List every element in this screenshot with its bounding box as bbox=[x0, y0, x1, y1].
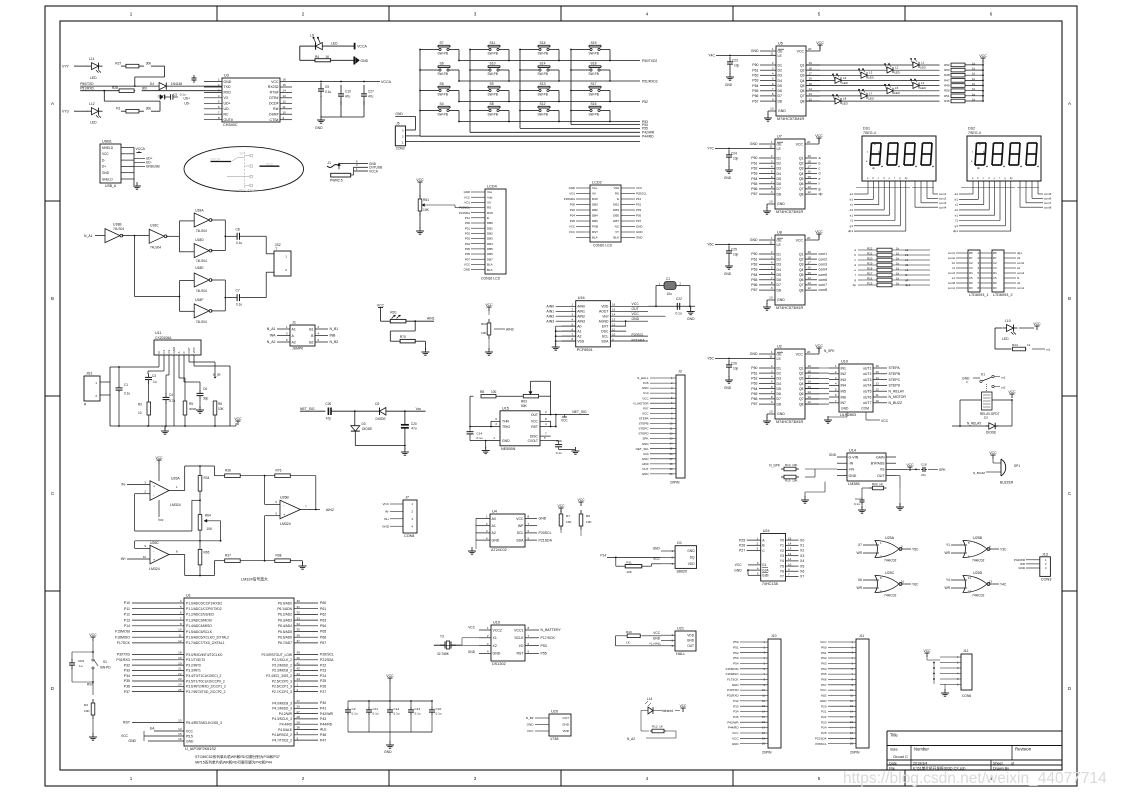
svg-text:32.768K: 32.768K bbox=[437, 652, 450, 656]
svg-text:VCC: VCC bbox=[796, 238, 804, 242]
svg-text:DTR#: DTR# bbox=[269, 96, 278, 100]
svg-text:74LS04: 74LS04 bbox=[196, 229, 207, 233]
svg-text:S14: S14 bbox=[540, 61, 546, 65]
svg-text:13: 13 bbox=[283, 94, 287, 98]
svg-text:DISC: DISC bbox=[530, 434, 539, 438]
svg-text:10: 10 bbox=[769, 410, 773, 414]
svg-text:P67: P67 bbox=[751, 288, 757, 292]
svg-text:LED: LED bbox=[894, 71, 901, 75]
svg-text:V0: V0 bbox=[487, 201, 491, 205]
svg-text:d1: d1 bbox=[905, 263, 909, 267]
svg-text:R3: R3 bbox=[84, 703, 88, 707]
svg-text:C6: C6 bbox=[203, 387, 207, 391]
svg-text:P34: P34 bbox=[733, 710, 739, 714]
svg-text:SW-PB: SW-PB bbox=[488, 93, 498, 97]
svg-text:Q4: Q4 bbox=[799, 172, 804, 176]
svg-text:P2.4/ECI_3/SS_2: P2.4/ECI_3/SS_2 bbox=[266, 674, 292, 678]
svg-text:S19: S19 bbox=[591, 41, 597, 45]
svg-text:10: 10 bbox=[670, 421, 673, 425]
svg-text:P12: P12 bbox=[124, 613, 130, 617]
svg-text:P4.6/RXD2_2: P4.6/RXD2_2 bbox=[272, 733, 292, 737]
svg-text:R37: R37 bbox=[225, 554, 231, 558]
svg-text:D3: D3 bbox=[777, 263, 782, 267]
svg-text:19: 19 bbox=[808, 364, 812, 368]
svg-text:GND: GND bbox=[642, 442, 650, 446]
svg-text:VCC: VCC bbox=[234, 417, 242, 421]
svg-text:P20SDA: P20SDA bbox=[564, 197, 575, 201]
svg-text:R14 10K: R14 10K bbox=[785, 463, 798, 467]
svg-text:SW-PB: SW-PB bbox=[488, 52, 498, 56]
svg-text:S15: S15 bbox=[540, 41, 546, 45]
svg-text:D3: D3 bbox=[777, 167, 782, 171]
svg-text:Q5: Q5 bbox=[799, 387, 804, 391]
svg-text:39: 39 bbox=[297, 651, 301, 655]
svg-text:33: 33 bbox=[297, 616, 301, 620]
svg-text:GND: GND bbox=[724, 386, 732, 390]
svg-text:300R: 300R bbox=[189, 407, 197, 411]
svg-text:R12 1K: R12 1K bbox=[652, 725, 663, 729]
svg-text:Title: Title bbox=[890, 733, 898, 738]
svg-text:P50/TXD2: P50/TXD2 bbox=[642, 59, 657, 63]
svg-text:Vcc: Vcc bbox=[158, 518, 164, 522]
svg-text:VCC: VCC bbox=[1008, 390, 1016, 394]
svg-text:f1: f1 bbox=[905, 273, 908, 277]
svg-text:0.1u: 0.1u bbox=[556, 451, 562, 455]
svg-text:20: 20 bbox=[807, 236, 811, 240]
svg-text:K1: K1 bbox=[981, 373, 985, 377]
svg-text:D1: D1 bbox=[677, 541, 682, 545]
svg-text:GND: GND bbox=[777, 412, 785, 416]
svg-text:P2.0/RSTOUT_LOW: P2.0/RSTOUT_LOW bbox=[261, 653, 292, 657]
svg-text:1u: 1u bbox=[153, 380, 157, 384]
svg-text:P24: P24 bbox=[821, 726, 827, 730]
svg-text:P62: P62 bbox=[751, 263, 757, 267]
svg-text:P12: P12 bbox=[636, 197, 642, 201]
svg-text:D2: D2 bbox=[777, 162, 782, 166]
svg-text:X6: X6 bbox=[858, 578, 862, 582]
svg-text:ALE: ALE bbox=[320, 728, 327, 732]
svg-text:U25B: U25B bbox=[973, 536, 983, 540]
svg-text:dp1: dp1 bbox=[848, 229, 853, 233]
svg-text:U18F: U18F bbox=[195, 298, 203, 302]
svg-text:P1.0/ADC0/CCP1/RXD2: P1.0/ADC0/CCP1/RXD2 bbox=[186, 601, 222, 605]
svg-text:GND: GND bbox=[724, 272, 732, 276]
svg-text:P65: P65 bbox=[821, 672, 827, 676]
svg-text:J13: J13 bbox=[1042, 552, 1048, 556]
svg-text:N_BUZZ: N_BUZZ bbox=[973, 471, 985, 475]
svg-text:LED: LED bbox=[868, 96, 875, 100]
svg-text:X2: X2 bbox=[800, 549, 804, 553]
svg-text:R15 10K: R15 10K bbox=[785, 479, 798, 483]
svg-text:P20: P20 bbox=[821, 704, 827, 708]
svg-text:OE: OE bbox=[778, 49, 784, 53]
svg-text:com2: com2 bbox=[939, 197, 947, 201]
svg-text:47u: 47u bbox=[411, 427, 417, 431]
svg-text:P3.3/INT1: P3.3/INT1 bbox=[186, 669, 201, 673]
svg-text:N_SPK: N_SPK bbox=[769, 464, 781, 468]
svg-text:C26: C26 bbox=[731, 362, 737, 366]
svg-text:14: 14 bbox=[762, 710, 765, 714]
svg-text:OE: OE bbox=[777, 352, 783, 356]
svg-text:P2.3/MOSI_2: P2.3/MOSI_2 bbox=[272, 669, 292, 673]
svg-text:d: d bbox=[819, 172, 821, 176]
svg-text:X5: X5 bbox=[800, 564, 804, 568]
svg-text:CON16 LCD: CON16 LCD bbox=[481, 277, 501, 281]
svg-text:43: 43 bbox=[297, 672, 301, 676]
svg-text:D3: D3 bbox=[362, 422, 366, 426]
svg-text:BLK: BLK bbox=[487, 268, 493, 272]
svg-text:U8: U8 bbox=[777, 231, 782, 235]
svg-text:P1.4/ADC4/MISO: P1.4/ADC4/MISO bbox=[186, 624, 212, 628]
svg-text:DIODE: DIODE bbox=[376, 417, 386, 421]
svg-text:D4: D4 bbox=[777, 382, 782, 386]
svg-text:GND: GND bbox=[636, 236, 642, 240]
svg-text:R21: R21 bbox=[867, 252, 873, 256]
svg-text:P4.7/TXD2_2: P4.7/TXD2_2 bbox=[272, 738, 292, 742]
svg-text:L8: L8 bbox=[843, 97, 847, 101]
svg-text:P4.5/ALE: P4.5/ALE bbox=[278, 728, 293, 732]
svg-text:D6: D6 bbox=[777, 278, 782, 282]
svg-text:OUT: OUT bbox=[187, 347, 191, 354]
svg-text:J1: J1 bbox=[328, 161, 332, 165]
svg-text:GND: GND bbox=[841, 407, 849, 411]
svg-text:10K: 10K bbox=[626, 570, 632, 574]
svg-text:P54: P54 bbox=[733, 662, 739, 666]
svg-text:DB1: DB1 bbox=[613, 203, 619, 207]
svg-text:C5: C5 bbox=[993, 276, 997, 280]
svg-text:com1: com1 bbox=[939, 192, 947, 196]
svg-text:dp1: dp1 bbox=[953, 229, 958, 233]
svg-text:15: 15 bbox=[178, 732, 182, 736]
svg-text:VCC: VCC bbox=[815, 230, 823, 234]
svg-text:SW-PB: SW-PB bbox=[589, 93, 599, 97]
svg-text:R/W: R/W bbox=[592, 197, 598, 201]
svg-text:IN5: IN5 bbox=[841, 390, 847, 394]
svg-text:BLA: BLA bbox=[592, 236, 598, 240]
svg-text:P5.5: P5.5 bbox=[186, 734, 193, 738]
svg-text:STEPB: STEPB bbox=[889, 372, 901, 376]
svg-text:11: 11 bbox=[770, 52, 773, 56]
svg-text:VCC: VCC bbox=[377, 303, 385, 307]
svg-text:VCC: VCC bbox=[816, 41, 824, 45]
svg-text:U3: U3 bbox=[224, 74, 229, 78]
svg-text:com8: com8 bbox=[948, 281, 955, 285]
svg-text:V3: V3 bbox=[224, 96, 228, 100]
svg-text:C2: C2 bbox=[352, 707, 356, 711]
svg-text:GND: GND bbox=[687, 317, 695, 321]
svg-text:D1: D1 bbox=[777, 156, 782, 160]
svg-text:S7: S7 bbox=[440, 41, 444, 45]
svg-text:CON3: CON3 bbox=[1041, 577, 1052, 581]
svg-text:STEPA: STEPA bbox=[889, 366, 901, 370]
svg-text:GND: GND bbox=[1018, 566, 1026, 570]
svg-text:14: 14 bbox=[876, 376, 880, 380]
svg-text:10p: 10p bbox=[734, 64, 740, 68]
svg-text:Q8: Q8 bbox=[799, 192, 804, 196]
svg-text:P06: P06 bbox=[465, 252, 471, 256]
svg-text:R4: R4 bbox=[315, 55, 319, 59]
svg-text:SCLK: SCLK bbox=[514, 636, 524, 640]
svg-text:J1: J1 bbox=[292, 321, 296, 325]
svg-text:P62: P62 bbox=[751, 377, 757, 381]
svg-text:X6: X6 bbox=[800, 569, 804, 573]
svg-text:30k: 30k bbox=[146, 61, 152, 65]
svg-text:F15MOSI: F15MOSI bbox=[115, 630, 130, 634]
svg-text:P67: P67 bbox=[752, 99, 758, 103]
svg-text:Vref: Vref bbox=[602, 315, 608, 319]
svg-text:VCC: VCC bbox=[578, 498, 586, 502]
svg-text:GND: GND bbox=[725, 83, 733, 87]
svg-text:ALE: ALE bbox=[821, 694, 827, 698]
svg-text:Q5: Q5 bbox=[799, 177, 804, 181]
svg-text:R7: R7 bbox=[566, 514, 570, 518]
svg-text:P51/RXD2: P51/RXD2 bbox=[642, 79, 658, 83]
svg-text:U24: U24 bbox=[763, 529, 770, 533]
svg-text:IN-: IN- bbox=[121, 483, 126, 487]
svg-text:P63: P63 bbox=[751, 172, 757, 176]
svg-text:P43: P43 bbox=[320, 717, 326, 721]
svg-text:0.1u: 0.1u bbox=[854, 502, 860, 506]
svg-text:14: 14 bbox=[670, 442, 673, 446]
svg-text:R24: R24 bbox=[1012, 343, 1018, 347]
svg-text:PWR2.5: PWR2.5 bbox=[330, 179, 343, 183]
svg-text:P35: P35 bbox=[733, 715, 739, 719]
svg-text:D5: D5 bbox=[777, 177, 782, 181]
svg-text:L12: L12 bbox=[89, 102, 95, 106]
svg-text:P31RXD: P31RXD bbox=[727, 694, 740, 698]
svg-text:P6.7/AD7: P6.7/AD7 bbox=[278, 641, 292, 645]
svg-text:VCC2: VCC2 bbox=[493, 628, 502, 632]
svg-text:15: 15 bbox=[808, 175, 812, 179]
svg-text:R38: R38 bbox=[276, 554, 282, 558]
svg-text:AIN2: AIN2 bbox=[546, 314, 554, 318]
svg-text:D8: D8 bbox=[777, 402, 782, 406]
svg-text:P00: P00 bbox=[570, 203, 576, 207]
svg-text:GND: GND bbox=[750, 238, 758, 242]
svg-text:N_A2: N_A2 bbox=[267, 340, 276, 344]
svg-text:OUT: OUT bbox=[531, 413, 538, 417]
svg-text:10: 10 bbox=[788, 562, 792, 566]
svg-text:U11: U11 bbox=[155, 331, 161, 335]
svg-text:X1: X1 bbox=[800, 544, 804, 548]
svg-text:P64: P64 bbox=[751, 273, 757, 277]
svg-text:17: 17 bbox=[670, 457, 673, 461]
svg-text:LE: LE bbox=[778, 54, 783, 58]
svg-text:TXD: TXD bbox=[224, 85, 231, 89]
svg-text:VCC: VCC bbox=[732, 736, 739, 740]
svg-text:C16: C16 bbox=[556, 439, 562, 443]
svg-text:18: 18 bbox=[809, 66, 813, 70]
svg-text:DB3: DB3 bbox=[613, 208, 619, 212]
svg-text:16: 16 bbox=[670, 452, 673, 456]
svg-text:P23: P23 bbox=[821, 720, 827, 724]
svg-text:A2: A2 bbox=[292, 340, 296, 344]
svg-text:P6.3/AD3: P6.3/AD3 bbox=[278, 618, 292, 622]
svg-text:com4: com4 bbox=[948, 271, 955, 275]
svg-text:R34: R34 bbox=[204, 476, 210, 480]
svg-text:CON20 LCD: CON20 LCD bbox=[593, 244, 613, 248]
svg-text:19: 19 bbox=[670, 467, 673, 471]
svg-text:A: A bbox=[177, 351, 181, 353]
svg-text:18: 18 bbox=[762, 731, 765, 735]
svg-text:MHELD: MHELD bbox=[102, 146, 114, 150]
svg-text:X1: X1 bbox=[493, 636, 497, 640]
svg-text:VO1: VO1 bbox=[464, 200, 470, 204]
svg-text:13: 13 bbox=[178, 719, 182, 723]
svg-text:DS1302: DS1302 bbox=[492, 662, 506, 666]
svg-text:R11: R11 bbox=[626, 560, 632, 564]
svg-text:OUT: OUT bbox=[632, 307, 639, 311]
svg-text:VCC: VCC bbox=[815, 134, 823, 138]
svg-text:LM324: LM324 bbox=[170, 503, 181, 507]
svg-text:11: 11 bbox=[968, 576, 971, 580]
svg-text:m1: m1 bbox=[1001, 376, 1006, 380]
svg-text:e1: e1 bbox=[905, 268, 909, 272]
svg-text:dp: dp bbox=[819, 192, 823, 196]
svg-text:com8: com8 bbox=[819, 288, 828, 292]
svg-text:D6: D6 bbox=[778, 89, 783, 93]
svg-text:LED: LED bbox=[90, 121, 97, 125]
svg-text:d1: d1 bbox=[1017, 281, 1021, 285]
svg-text:D2: D2 bbox=[777, 371, 782, 375]
svg-text:INA: INA bbox=[270, 334, 277, 338]
svg-text:P01: P01 bbox=[636, 203, 642, 207]
svg-text:L2: L2 bbox=[895, 66, 899, 70]
svg-text:AIN0: AIN0 bbox=[577, 305, 585, 309]
svg-text:BYPASS: BYPASS bbox=[871, 462, 885, 466]
svg-text:20: 20 bbox=[807, 140, 811, 144]
svg-text:GND: GND bbox=[172, 346, 176, 354]
svg-text:SW-PB: SW-PB bbox=[438, 72, 448, 76]
svg-text:U26B: U26B bbox=[280, 496, 289, 500]
svg-text:R63: R63 bbox=[521, 400, 527, 404]
svg-text:D6: D6 bbox=[777, 182, 782, 186]
svg-text:AIN0: AIN0 bbox=[546, 305, 554, 309]
svg-text:10u: 10u bbox=[667, 292, 673, 296]
svg-text:NC: NC bbox=[224, 113, 230, 117]
svg-text:11: 11 bbox=[788, 557, 791, 561]
svg-text:JUMP6: JUMP6 bbox=[292, 347, 303, 351]
svg-text:RS: RS bbox=[615, 192, 619, 196]
svg-text:R48: R48 bbox=[944, 73, 950, 77]
svg-text:47u: 47u bbox=[345, 95, 351, 99]
svg-text:14: 14 bbox=[808, 180, 812, 184]
svg-text:P63: P63 bbox=[821, 662, 827, 666]
svg-text:P21SDA: P21SDA bbox=[459, 211, 470, 215]
svg-text:D+: D+ bbox=[102, 165, 106, 169]
svg-text:SCL: SCL bbox=[517, 531, 524, 535]
svg-text:10: 10 bbox=[612, 332, 616, 336]
svg-text:RX232: RX232 bbox=[268, 85, 279, 89]
svg-text:R27: R27 bbox=[115, 61, 121, 65]
svg-text:Vss: Vss bbox=[592, 186, 598, 190]
svg-text:P52: P52 bbox=[642, 100, 648, 104]
svg-text:P1.7/ADC7/TXD_2/XTAL1: P1.7/ADC7/TXD_2/XTAL1 bbox=[186, 641, 225, 645]
svg-text:D4: D4 bbox=[150, 82, 154, 86]
svg-text:P01: P01 bbox=[465, 226, 471, 230]
svg-text:VCC: VCC bbox=[155, 456, 163, 460]
svg-text:com2: com2 bbox=[819, 257, 828, 261]
svg-text:P23: P23 bbox=[320, 669, 326, 673]
svg-text:VCC: VCC bbox=[815, 344, 823, 348]
svg-text:SW-PD: SW-PD bbox=[100, 666, 111, 670]
svg-text:GND: GND bbox=[734, 568, 742, 572]
svg-text:X3: X3 bbox=[800, 554, 804, 558]
svg-text:12: 12 bbox=[808, 190, 812, 194]
svg-text:oUT3: oUT3 bbox=[863, 378, 872, 382]
svg-text:C3: C3 bbox=[969, 266, 973, 270]
svg-text:12: 12 bbox=[808, 286, 812, 290]
svg-text:13: 13 bbox=[809, 92, 813, 96]
svg-text:U18E: U18E bbox=[195, 266, 204, 270]
svg-text:P14: P14 bbox=[124, 624, 130, 628]
svg-text:P63: P63 bbox=[751, 382, 757, 386]
svg-text:P04: P04 bbox=[465, 242, 471, 246]
svg-text:P26: P26 bbox=[739, 544, 745, 548]
svg-text:74LS04: 74LS04 bbox=[113, 227, 124, 231]
svg-text:P61: P61 bbox=[320, 607, 326, 611]
svg-text:0.1u: 0.1u bbox=[676, 312, 682, 316]
svg-text:VS: VS bbox=[880, 468, 885, 472]
svg-text:E: E bbox=[487, 216, 489, 220]
svg-text:RTS#: RTS# bbox=[270, 91, 279, 95]
svg-text:D7: D7 bbox=[777, 283, 782, 287]
svg-text:VCC: VCC bbox=[797, 49, 805, 53]
svg-text:16: 16 bbox=[808, 380, 812, 384]
svg-text:Y1: Y1 bbox=[780, 544, 784, 548]
svg-text:S4: S4 bbox=[440, 102, 444, 106]
svg-text:Y6: Y6 bbox=[780, 570, 784, 574]
svg-text:Q1: Q1 bbox=[800, 63, 805, 67]
svg-text:U25A: U25A bbox=[885, 536, 895, 540]
svg-text:com1: com1 bbox=[819, 252, 828, 256]
svg-text:RST: RST bbox=[517, 652, 525, 656]
svg-text:S8: S8 bbox=[490, 102, 494, 106]
svg-text:P64: P64 bbox=[821, 667, 827, 671]
svg-text:D2: D2 bbox=[984, 415, 988, 419]
svg-text:b1: b1 bbox=[955, 197, 959, 201]
svg-text:11: 11 bbox=[283, 105, 286, 109]
svg-text:LM324信号放大: LM324信号放大 bbox=[241, 577, 268, 582]
svg-text:P40: P40 bbox=[320, 701, 326, 705]
svg-text:U5: U5 bbox=[778, 42, 783, 46]
svg-text:C2: C2 bbox=[993, 261, 997, 265]
svg-text:1738: 1738 bbox=[550, 737, 558, 741]
svg-text:A2: A2 bbox=[492, 531, 496, 535]
svg-text:C5: C5 bbox=[173, 92, 177, 96]
svg-text:d1: d1 bbox=[850, 208, 854, 212]
svg-text:10K: 10K bbox=[586, 520, 592, 524]
svg-text:LED: LED bbox=[331, 42, 338, 46]
svg-text:15: 15 bbox=[283, 83, 287, 87]
svg-text:g1: g1 bbox=[850, 224, 854, 228]
svg-text:AIN1: AIN1 bbox=[577, 310, 585, 314]
svg-text:P20SCL: P20SCL bbox=[539, 531, 552, 535]
svg-text:P20SCL: P20SCL bbox=[632, 333, 645, 337]
svg-text:C24: C24 bbox=[731, 152, 737, 156]
svg-text:16: 16 bbox=[612, 303, 616, 307]
svg-text:P21SDA: P21SDA bbox=[320, 658, 334, 662]
svg-text:SW-PB: SW-PB bbox=[488, 72, 498, 76]
svg-text:D5: D5 bbox=[777, 273, 782, 277]
svg-text:V0: V0 bbox=[592, 192, 596, 196]
svg-text:P66: P66 bbox=[320, 635, 326, 639]
svg-text:18: 18 bbox=[850, 731, 853, 735]
svg-text:dp1: dp1 bbox=[905, 283, 910, 287]
svg-text:RI#: RI# bbox=[273, 107, 279, 111]
svg-text:R10: R10 bbox=[626, 630, 632, 634]
svg-text:VCC: VCC bbox=[735, 563, 743, 567]
